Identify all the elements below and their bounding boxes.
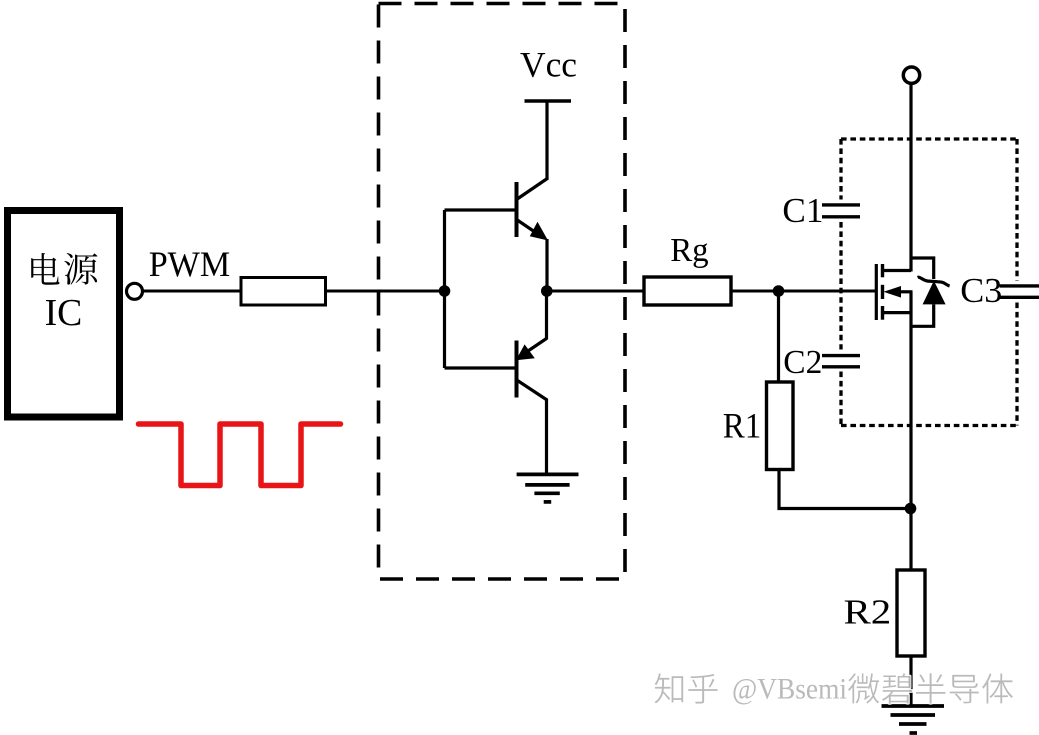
- resistor R1: [767, 382, 794, 470]
- svg-text:Vcc: Vcc: [520, 45, 577, 85]
- M1 channel segments: [881, 264, 884, 320]
- PWM waveform (red): [139, 424, 341, 486]
- wire driver output to Rg: [547, 290, 645, 293]
- wire Rg to gate: [731, 290, 875, 293]
- Q1 collector diagonal: [517, 178, 549, 200]
- resistor R2: [897, 570, 925, 656]
- Q2 emitter wire from output node: [545, 291, 548, 340]
- ground (driver): [517, 474, 579, 502]
- Q1 emitter wire down: [545, 239, 548, 291]
- ground (source divider): [882, 706, 945, 733]
- svg-text:R2: R2: [844, 592, 892, 631]
- capacitor C1 plates: [822, 205, 860, 217]
- svg-text:PWM: PWM: [149, 244, 231, 284]
- capacitor C3 plates: [1000, 286, 1039, 297]
- svg-text:R1: R1: [723, 406, 762, 446]
- svg-text:C2: C2: [783, 344, 822, 381]
- Q2 collector diagonal: [518, 381, 548, 401]
- capacitor C2 plates: [822, 356, 860, 367]
- node dot gate branch: [773, 285, 785, 297]
- transistor Q2 (PNP lower) base bar: [515, 341, 519, 398]
- resistor Rin (series input): [241, 278, 326, 306]
- svg-text:C3: C3: [960, 271, 1002, 310]
- terminal circle PWM output: [127, 283, 143, 299]
- wire R1 bottom to source node: [779, 470, 911, 509]
- wire source node down to R2: [909, 292, 912, 570]
- Q1 base lead: [445, 208, 517, 211]
- Vcc rail bar: [525, 99, 572, 102]
- M1 source lead: [883, 311, 912, 314]
- Q1 emitter diagonal with arrow: [517, 220, 544, 238]
- Q2 emitter diagonal with arrow into base bar: [525, 339, 547, 354]
- svg-text:Rg: Rg: [670, 232, 709, 269]
- node dot driver output: [541, 285, 553, 297]
- watermark 知乎 @VBsemi微碧半导体: [655, 673, 1013, 706]
- svg-text:IC: IC: [45, 292, 83, 334]
- dashed box: totem-pole driver stage: [379, 4, 626, 580]
- Q2 base lead: [445, 366, 517, 369]
- wire drain terminal down: [909, 84, 912, 272]
- svg-text:C1: C1: [782, 191, 823, 230]
- wire Vcc to Q1 collector: [545, 101, 548, 180]
- body diode cathode curve: [918, 277, 950, 286]
- svg-text:@VBsemi: @VBsemi: [732, 673, 847, 706]
- M1 body arrow: [884, 286, 902, 298]
- wire Rin to driver input node: [326, 290, 445, 293]
- wire node down to R1: [777, 291, 780, 382]
- wire PWM to Rin: [142, 290, 241, 293]
- resistor Rg: [644, 277, 731, 305]
- M1 drain lead: [883, 269, 912, 272]
- Q2 collector wire to ground: [545, 399, 548, 474]
- terminal circle drain top: [903, 67, 919, 83]
- power IC box U1: [8, 211, 120, 418]
- label 电源: [31, 253, 97, 285]
- wire base rail vertical: [443, 210, 446, 368]
- MOSFET M1 gate bar: [875, 264, 878, 320]
- transistor Q1 (NPN upper) base bar: [515, 182, 519, 237]
- body diode branch top: [911, 258, 934, 279]
- body diode triangle: [923, 281, 946, 305]
- node dot source/R2 junction: [905, 503, 917, 515]
- node dot driver input: [439, 285, 451, 297]
- dotted box: MOSFET parasitic capacitances: [841, 139, 1017, 426]
- wire R2 to ground: [909, 656, 912, 706]
- body diode branch bottom: [911, 304, 934, 326]
